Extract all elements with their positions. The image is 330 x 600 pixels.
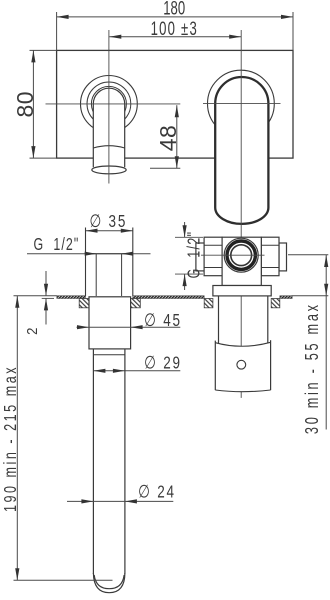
handle lever	[215, 77, 268, 224]
spout tip ellipse	[92, 166, 126, 174]
dim 48 line	[176, 105, 178, 168]
svg-text:G 1/2ʺ: G 1/2ʺ	[34, 235, 80, 255]
dim 80 extension bottom	[30, 157, 57, 159]
dim ø24 line	[67, 500, 173, 502]
label 80	[12, 91, 38, 118]
G1/2 leader	[27, 253, 151, 255]
svg-text:∅ 29: ∅ 29	[144, 354, 182, 373]
label ø35	[89, 212, 127, 231]
dim G1/2 ext top	[175, 236, 203, 238]
wall hatch block left of valve	[204, 299, 213, 308]
long tube left side	[92, 349, 94, 574]
right h centerline	[203, 103, 281, 105]
valve right nut	[261, 237, 279, 276]
tube cap outer	[93, 573, 125, 593]
long tube right side	[124, 349, 126, 574]
escutcheon circle mid left	[87, 82, 131, 126]
supply tube top edge	[86, 253, 133, 255]
dim ø35 line	[86, 230, 133, 232]
tube cap inner	[94, 575, 124, 589]
svg-text:190 min - 215 max: 190 min - 215 max	[1, 365, 21, 512]
dim 180 extension right	[292, 12, 294, 50]
plate	[57, 50, 293, 158]
valve base plate	[213, 286, 271, 296]
label 180	[163, 0, 185, 19]
dim G1/2 ext bottom	[175, 273, 203, 275]
wall hatch block right of valve	[271, 299, 280, 308]
wall hatch block left of flange	[79, 299, 89, 308]
label G1/2 right	[184, 231, 204, 279]
label 48	[155, 125, 181, 152]
cartridge outer circle	[224, 238, 258, 272]
dim 100±3 line	[109, 36, 241, 38]
sleeve bottom arc	[215, 390, 270, 392]
valve right stub	[279, 243, 287, 271]
dim 2 extension	[42, 297, 54, 299]
supply tube outer right	[132, 228, 134, 297]
spout flange ø45	[89, 297, 131, 349]
spout joint arc	[93, 146, 124, 148]
dim 180 extension left	[56, 12, 58, 50]
wall hatch block right of flange	[131, 299, 141, 308]
cartridge crosshair	[201, 254, 265, 256]
handle escutcheon circle right	[208, 70, 275, 137]
label ø45	[144, 311, 182, 330]
left v centerline	[108, 30, 110, 184]
label 30min-55max	[303, 302, 323, 434]
valve left nut	[204, 237, 222, 276]
dim 190-215 line	[16, 296, 18, 581]
sleeve upper cylinder	[218, 296, 220, 344]
svg-text:∅ 35: ∅ 35	[89, 212, 127, 231]
sleeve right side	[270, 340, 272, 390]
dim 30-55 ext wall	[292, 295, 329, 297]
label G 1/2 left	[34, 235, 80, 255]
dim 190-215 top extension	[14, 295, 57, 297]
set screw	[237, 360, 246, 369]
svg-text:G 1/2ʺ: G 1/2ʺ	[184, 231, 204, 279]
dim 80 line	[32, 50, 34, 158]
left h centerline	[46, 103, 181, 105]
valve left stub	[196, 243, 204, 271]
svg-text:∅ 24: ∅ 24	[138, 483, 176, 502]
supply tube thread right	[121, 254, 123, 296]
dim 190-215 bottom extension	[14, 579, 113, 581]
escutcheon circle inner left	[91, 86, 126, 121]
svg-text:2: 2	[25, 328, 41, 335]
svg-text:180: 180	[163, 0, 185, 19]
svg-text:30 min - 55 max: 30 min - 55 max	[303, 302, 323, 434]
valve body	[222, 237, 261, 285]
dim 2 upper shaft	[45, 271, 47, 296]
label 100±3	[151, 19, 198, 40]
dim ø29 line	[93, 370, 180, 372]
wall strip segment C	[280, 296, 292, 299]
spout tube fill	[93, 88, 124, 169]
dim G1/2 right upper shaft	[184, 222, 186, 237]
spout tube outline	[93, 88, 124, 167]
dim ø45 line	[77, 326, 181, 328]
sleeve left side	[214, 341, 216, 391]
dim 2 lower shaft	[45, 298, 47, 324]
wall strip segment A	[57, 296, 86, 299]
label ø29	[144, 354, 182, 373]
label ø24	[138, 483, 176, 502]
cartridge inner circle	[231, 245, 252, 266]
svg-text:48: 48	[155, 125, 181, 152]
sleeve top arc	[215, 342, 270, 346]
dim 48 bottom extension	[150, 167, 180, 169]
supply tube outer left	[85, 228, 87, 297]
svg-text:100 ±3: 100 ±3	[151, 19, 198, 40]
flange step line	[93, 354, 125, 356]
dim 30-55 ext top	[288, 254, 328, 256]
svg-text:80: 80	[12, 91, 38, 118]
supply tube thread left	[95, 254, 97, 296]
dim 30-55 line	[325, 255, 327, 430]
cartridge thick ring	[227, 241, 255, 269]
dim G1/2 right lower shaft	[184, 274, 186, 290]
label 190min-215max	[1, 365, 21, 512]
label 2	[25, 328, 41, 335]
escutcheon circle outer left	[81, 76, 138, 133]
svg-text:∅ 45: ∅ 45	[144, 311, 182, 330]
wall strip segment B	[133, 296, 204, 299]
dim 180 line	[57, 16, 293, 18]
dim 80 extension top	[30, 49, 57, 51]
right v centerline (shared top/bottom figure)	[240, 30, 242, 398]
sleeve lower trim fill	[215, 342, 270, 391]
